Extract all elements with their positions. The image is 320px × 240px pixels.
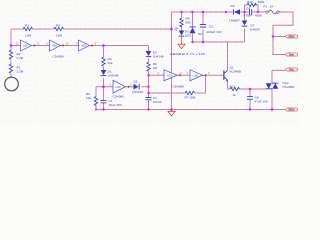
wire: U1C output to D2 to node [126, 86, 149, 88]
svg-text:R4: R4 [56, 23, 60, 27]
svg-text:R3: R3 [25, 23, 29, 27]
resistor R1 [9, 64, 24, 74]
wire: C6 drop [249, 89, 251, 110]
wire: row1 gate chain [11, 45, 149, 47]
diode D1 [101, 70, 119, 78]
wire: U1C input row [96, 86, 113, 88]
wire: RC parallel block frame [245, 5, 259, 12]
wire: column D1/R6/C1 [103, 46, 105, 110]
resistor R9 [147, 62, 158, 72]
wire: vertical from rail to U1F input node [10, 29, 12, 46]
svg-text:D6: D6 [198, 32, 202, 36]
svg-text:22k: 22k [108, 61, 113, 65]
wire: port1 branch [273, 36, 285, 38]
svg-text:R11: R11 [230, 85, 236, 89]
svg-text:U1B: U1B [193, 73, 198, 77]
wire: supply vertical [171, 12, 173, 110]
diode D3 [146, 51, 164, 59]
svg-text:10k: 10k [86, 96, 91, 100]
inverter U1B [187, 70, 211, 81]
resistor R2 [9, 50, 24, 60]
svg-text:220v: 220v [288, 108, 295, 112]
svg-text:BC546B: BC546B [230, 70, 242, 74]
diode D2 [132, 80, 143, 95]
svg-text:U1E: U1E [52, 44, 57, 48]
resistor R4 [54, 23, 63, 37]
svg-text:470nF - 400V: 470nF - 400V [244, 13, 264, 17]
wire: Q1 emitter riser and R11 row [228, 80, 267, 89]
inverter U1A [158, 70, 185, 89]
wire: left feedback rail [11, 28, 172, 30]
ground (LED/zener) [178, 43, 185, 49]
svg-text:U1C: U1C [116, 85, 121, 89]
svg-text:F1: F1 [264, 5, 268, 9]
inverter U1F [16, 40, 40, 51]
port 220v top [285, 35, 297, 39]
svg-text:CD4069: CD4069 [173, 84, 185, 88]
svg-text:1N4148: 1N4148 [153, 55, 164, 59]
svg-text:1k: 1k [233, 93, 237, 97]
resistor R8 [180, 17, 191, 27]
svg-text:1N4007: 1N4007 [250, 28, 261, 32]
wire: U1A input row [149, 74, 165, 76]
ground (main rail) [168, 110, 175, 116]
wire: triac MT1 drop [271, 89, 273, 110]
resistor R10 [247, 0, 265, 7]
svg-text:680: 680 [186, 21, 191, 25]
port 220v bottom [285, 108, 297, 112]
wire: U1B out to Q1 base [203, 74, 224, 76]
svg-text:10uF 35V: 10uF 35V [109, 103, 123, 107]
wire: fuse to jog corner [273, 12, 293, 55]
wire: column D3/R9/C2 [148, 46, 150, 110]
inverter U1E [46, 40, 69, 59]
resistor R6 [102, 57, 113, 66]
resistor R5 [86, 92, 98, 105]
svg-text:47uF 16V: 47uF 16V [255, 99, 269, 103]
svg-text:ZENER 4.7V / 1W: ZENER 4.7V / 1W [170, 52, 205, 56]
wire: top supply rail [172, 11, 245, 13]
port Sec lower [285, 68, 297, 72]
diode D4 [229, 4, 240, 22]
transistor Q1 [223, 66, 241, 82]
svg-text:C4: C4 [246, 7, 250, 11]
inverter U1D [76, 40, 97, 51]
wire: D7 column [244, 12, 246, 42]
svg-text:Sec: Sec [289, 68, 294, 72]
svg-text:U1A: U1A [167, 73, 172, 77]
svg-text:1N4148: 1N4148 [132, 90, 143, 94]
triac TR1 [266, 81, 295, 89]
zener D6 [190, 27, 203, 37]
capacitor C4 [244, 7, 264, 18]
wire: port3 branch [272, 69, 285, 71]
resistor R7 [185, 91, 196, 99]
wire: U1A out to U1B in [177, 74, 190, 76]
svg-text:C3: C3 [209, 24, 213, 28]
svg-text:D4: D4 [231, 4, 235, 8]
svg-text:CD4069: CD4069 [113, 95, 125, 99]
capacitor C3 [200, 24, 223, 34]
wire: triac MT2 riser [271, 70, 273, 83]
svg-text:100nF: 100nF [153, 100, 162, 104]
svg-text:1N4148: 1N4148 [108, 74, 119, 78]
diode D7 [242, 21, 261, 32]
wire: C3 column [202, 12, 204, 42]
wire: R2/R1 microphone chain [10, 46, 12, 79]
svg-text:100uF 16V: 100uF 16V [207, 30, 223, 34]
svg-text:CD4069: CD4069 [53, 55, 65, 59]
svg-text:10M: 10M [25, 34, 31, 38]
capacitor C6 [247, 96, 269, 104]
svg-text:2.2M: 2.2M [17, 56, 24, 60]
svg-text:TIC206D: TIC206D [282, 85, 295, 89]
microphone M1 [5, 77, 19, 91]
svg-text:Sec: Sec [289, 53, 294, 57]
svg-text:1N4007: 1N4007 [229, 18, 240, 22]
svg-text:220v: 220v [288, 35, 295, 39]
wire: R5 drop [95, 87, 97, 110]
resistor R11 [230, 85, 240, 98]
fuse F1 [264, 5, 280, 14]
wire: block to fuse [258, 11, 266, 13]
inverter U1C [110, 80, 133, 98]
svg-text:2.2M: 2.2M [17, 70, 24, 74]
capacitor C2 [146, 96, 162, 104]
pin end dots [34, 45, 207, 88]
svg-text:U1F: U1F [23, 44, 28, 48]
wire: bottom ground rail [96, 109, 285, 111]
capacitor C1 [101, 99, 123, 107]
svg-text:10k: 10k [153, 66, 158, 70]
svg-text:U1D: U1D [81, 44, 86, 48]
svg-text:R7 10M: R7 10M [185, 95, 196, 99]
svg-text:LED: LED [185, 34, 192, 38]
wire: zener net y42 [193, 41, 245, 43]
wire: R7 feedback [149, 75, 206, 93]
wire: Q1 collector riser [227, 42, 229, 70]
wire: LED column [181, 12, 183, 43]
resistor R3 [23, 23, 32, 37]
port Sec upper [285, 53, 297, 57]
svg-text:D2: D2 [134, 80, 138, 84]
svg-text:10M: 10M [56, 34, 62, 38]
LED D5 [175, 27, 192, 37]
wire: zener column [192, 12, 194, 42]
svg-text:330k: 330k [258, 0, 265, 4]
svg-text:R10: R10 [247, 0, 253, 4]
